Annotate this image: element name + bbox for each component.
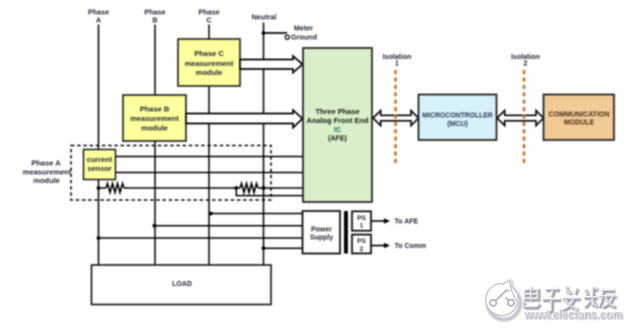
svg-text:B: B [152,16,157,25]
wire shunt line right [258,187,303,189]
svg-text:module: module [33,176,60,185]
svg-text:LOAD: LOAD [172,281,192,288]
wire meter ground tap [264,32,288,34]
svg-text:2: 2 [360,246,364,253]
junction at shunt 2 left [234,186,238,190]
svg-text:(AFE): (AFE) [328,136,347,143]
wire Phase A to power supply [99,237,303,239]
module Phase A measurement (dashed boundary) [71,146,271,201]
svg-text:MICROCONTROLLER: MICROCONTROLLER [422,112,493,119]
wire shunt line middle [124,187,240,189]
wire current sensor output 2 [112,172,303,174]
svg-text:Supply: Supply [310,235,333,242]
node Phase C label [198,8,219,25]
wire Phase B to power supply [155,225,303,227]
svg-text:1: 1 [360,223,364,230]
junction Phase A to power supply [97,236,101,240]
meter ground terminal circle [285,35,289,39]
arrow Phase C module to AFE [240,56,303,73]
wire Phase C to power supply [209,213,303,215]
svg-text:Neutral: Neutral [252,12,277,21]
svg-text:To AFE: To AFE [395,218,419,225]
PS 2 block [352,235,371,254]
module Phase B measurement [123,95,186,141]
node Phase A label [88,8,109,25]
wire shunt return L [236,188,303,196]
arrow MCU to COMM bidirectional [497,111,544,126]
wire Phase C vertical [208,25,210,266]
svg-text:module: module [141,124,168,133]
wire Neutral vertical [263,23,265,266]
load block [92,265,272,305]
svg-text:PS: PS [357,238,366,245]
svg-text:COMMUNICATION: COMMUNICATION [549,111,610,118]
module Phase C measurement [178,39,240,86]
svg-text:IC: IC [334,127,341,134]
wire Neutral to power supply [264,247,303,249]
label Phase A measurement module [23,158,72,185]
isolation 2 dashed line [523,70,526,165]
watermark logo shadow [488,280,521,320]
watermark text core layer [524,287,623,322]
component current sensor [84,150,116,180]
U2 communication module [544,95,615,141]
resistor shunt 1 [106,184,124,193]
node Phase B label [144,8,165,25]
op-amp AFE block [303,48,372,202]
wire shunt line left [99,187,107,189]
junction Phase C to power supply [209,212,213,216]
junction Phase B to power supply [153,224,157,228]
watermark text gray halo layer [524,288,623,323]
svg-text:1: 1 [395,61,399,68]
svg-text:Three Phase: Three Phase [316,109,360,116]
resistor shunt 2 [240,184,258,193]
arrow AFE to MCU bidirectional [373,111,419,126]
svg-text:Meter: Meter [294,24,313,33]
wire Phase A vertical [98,25,100,266]
junction Neutral to power supply [262,246,266,250]
label Isolation 1 [383,54,412,68]
wire current sensor output 1 [112,156,303,158]
junction on neutral at meter ground [262,31,266,35]
transformer bar [344,211,348,254]
svg-text:measurement: measurement [185,59,234,68]
svg-text:current: current [87,155,113,164]
U1 microcontroller MCU [419,95,497,141]
svg-text:Ground: Ground [291,33,317,42]
power supply block [303,211,341,254]
svg-text:PS: PS [357,215,366,222]
svg-text:Power: Power [311,227,332,234]
svg-text:MODULE: MODULE [564,120,595,127]
wire Phase B vertical [154,25,156,266]
arrow Phase B module to AFE [186,110,303,128]
arrow PS1 to AFE supply [372,218,419,225]
junction on Phase A shunt [97,186,101,190]
watermark logo trace [490,291,514,307]
watermark text white emboss layer [523,286,622,321]
junction on Neutral at shunt [262,186,266,190]
svg-text:Phase C: Phase C [194,49,224,58]
PS 1 block [352,211,371,230]
svg-text:module: module [196,68,223,77]
svg-text:Phase B: Phase B [140,105,170,114]
svg-text:C: C [206,16,211,25]
svg-text:2: 2 [524,61,528,68]
svg-text:(MCU): (MCU) [447,121,468,128]
svg-text:measurement: measurement [130,114,179,123]
node Meter Ground label [291,24,317,42]
svg-text:A: A [96,16,101,25]
svg-text:Phase A: Phase A [31,158,61,167]
svg-text:Analog Front End: Analog Front End [307,118,369,125]
isolation 1 dashed line [394,70,397,165]
watermark logo body [486,280,518,315]
svg-text:sensor: sensor [87,164,111,173]
label Isolation 2 [511,54,540,68]
svg-text:To Comm: To Comm [395,243,427,250]
arrow PS2 to Comm supply [372,243,427,250]
